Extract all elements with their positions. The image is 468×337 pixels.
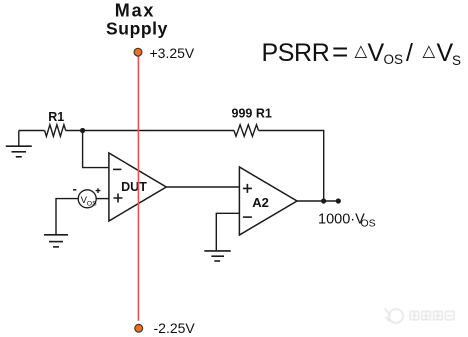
svg-text:-2.25V: -2.25V [154,320,196,336]
svg-text:OS: OS [384,52,404,67]
svg-text:Max: Max [115,1,155,21]
svg-text:/: / [406,39,413,67]
wire junction down to DUT inverting input [83,131,109,168]
svg-text:R1: R1 [48,110,64,124]
svg-text:S: S [452,53,461,68]
op-amp DUT [109,153,166,221]
svg-text:V: V [437,39,454,67]
wire feedback top right corner [259,131,324,202]
node junction dot feedback [321,198,326,203]
ground G3 below A2 [204,251,230,261]
svg-text:PSRR: PSRR [262,39,330,67]
formula PSRR [262,36,462,68]
node label 1000 Vos [318,211,376,229]
wire A2 output [297,200,338,202]
svg-text:999 R1: 999 R1 [232,107,272,121]
node +3.25V terminal [134,48,142,56]
wire from R1 to 999R1 [66,130,234,132]
wire DUT output to A2 input [166,186,239,188]
node output terminal dot [336,198,341,203]
svg-text:+3.25V: +3.25V [150,45,195,61]
op-amp A2 [239,167,297,235]
svg-text:A2: A2 [252,195,269,210]
ground G2 below Vos [44,235,68,247]
watermark text [410,312,454,320]
node junction dot left [80,128,85,133]
node -2.25V terminal [135,324,143,332]
wire A2 inverting input to ground [216,213,239,251]
svg-text:=: = [332,36,348,67]
resistor 999R1 [234,125,259,137]
svg-text:△: △ [355,42,369,60]
svg-text:△: △ [423,42,437,60]
svg-text:OS: OS [87,200,97,207]
svg-text:OS: OS [361,218,376,230]
label Max Supply [106,1,168,39]
source Vos [73,188,100,208]
wire Vos left to ground [56,199,78,235]
wire supply red line [137,56,139,320]
watermark logo [385,309,403,324]
svg-text:Supply: Supply [106,19,168,39]
wire left input net at y=130.5 [19,130,45,132]
ground G1 left [6,131,32,157]
svg-text:1000·V: 1000·V [318,211,365,227]
svg-text:DUT: DUT [121,180,147,194]
svg-text:V: V [368,39,385,67]
wire Vos to DUT noninverting input [96,198,109,200]
resistor R1 [45,125,66,137]
